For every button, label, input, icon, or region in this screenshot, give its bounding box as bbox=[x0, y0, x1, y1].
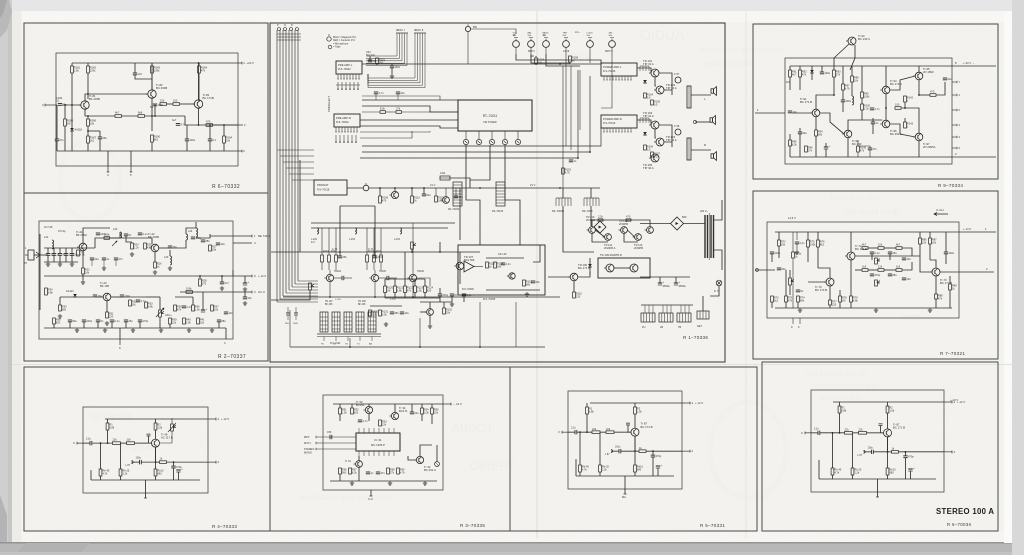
wire bbox=[905, 458, 907, 479]
transistor TR 111 bbox=[603, 234, 612, 241]
svg-text:MA: MA bbox=[622, 495, 626, 499]
svg-text:PU: PU bbox=[321, 344, 324, 346]
fuse F1 bbox=[440, 172, 450, 180]
svg-text:6,8k: 6,8k bbox=[397, 288, 403, 292]
svg-text:R 9–70016: R 9–70016 bbox=[603, 70, 616, 73]
potentiometer LOUD bbox=[587, 32, 594, 54]
svg-text:27k: 27k bbox=[836, 72, 841, 76]
svg-text:120: 120 bbox=[530, 55, 535, 58]
svg-text:50u: 50u bbox=[536, 280, 541, 284]
resistor R31 bbox=[106, 312, 115, 319]
transistor Tr-73 bbox=[930, 268, 952, 285]
svg-text:4u7: 4u7 bbox=[172, 118, 177, 122]
wire bbox=[789, 77, 791, 90]
svg-text:R 6–70332: R 6–70332 bbox=[212, 184, 240, 190]
wire bbox=[71, 248, 73, 254]
svg-text:4,7k: 4,7k bbox=[565, 170, 571, 174]
wire bbox=[818, 268, 830, 278]
pin 5 (P2 +12V) bbox=[233, 275, 252, 277]
wire bbox=[119, 328, 121, 339]
svg-text:UF LW: UF LW bbox=[498, 252, 507, 256]
resistor R4 (R4-70333) bbox=[127, 438, 135, 445]
svg-text:R4–70030: R4–70030 bbox=[448, 208, 460, 211]
wire bbox=[103, 260, 105, 266]
svg-text:47n: 47n bbox=[119, 257, 124, 261]
wire bbox=[47, 256, 49, 263]
wire bbox=[339, 404, 341, 408]
capacitor C62 bbox=[114, 257, 124, 261]
wire bbox=[198, 108, 200, 125]
svg-text:+ 12 V: + 12 V bbox=[957, 400, 965, 404]
wire bbox=[420, 301, 452, 303]
ground P2 gnd c34 bbox=[243, 287, 247, 291]
resistor R110 bbox=[411, 196, 421, 203]
block PRONAT bbox=[314, 180, 347, 195]
transistor Tr-22 bbox=[148, 232, 159, 252]
wire bbox=[599, 432, 601, 465]
svg-text:PRONAT: PRONAT bbox=[317, 183, 329, 187]
panel R6-70036 border bbox=[762, 362, 998, 531]
svg-text:470: 470 bbox=[382, 198, 387, 202]
wire bbox=[91, 260, 93, 266]
wire bbox=[834, 44, 849, 66]
svg-text:2,2n: 2,2n bbox=[187, 305, 193, 309]
rectifier bridge B1 bbox=[671, 216, 688, 230]
capacitor C78 bbox=[902, 257, 912, 261]
ground P8 gnd c bbox=[423, 481, 427, 485]
wire bbox=[347, 187, 363, 189]
capacitor C79 bbox=[902, 277, 912, 281]
svg-text:100u: 100u bbox=[868, 446, 874, 449]
wire bbox=[887, 402, 889, 406]
resistor R4 (R5-70331) bbox=[606, 427, 614, 434]
potentiometer BAL bbox=[528, 31, 535, 54]
capacitor C1 (R4-70333) bbox=[90, 441, 92, 445]
wire bbox=[295, 315, 297, 320]
svg-text:4,7k: 4,7k bbox=[834, 470, 840, 474]
wire bbox=[918, 80, 920, 95]
capacitor C122 bbox=[569, 159, 577, 163]
transistor TR 204 bbox=[324, 274, 333, 281]
svg-text:15k: 15k bbox=[214, 307, 219, 311]
resistor R143 bbox=[904, 122, 914, 129]
svg-text:47k: 47k bbox=[177, 307, 182, 311]
wire bbox=[369, 187, 600, 189]
wire bbox=[142, 447, 156, 462]
wire bbox=[888, 451, 892, 453]
capacitor C24 bbox=[64, 252, 74, 256]
svg-text:6,8k: 6,8k bbox=[841, 408, 847, 412]
wire bbox=[311, 227, 448, 229]
wire bbox=[329, 270, 331, 274]
resistor R108 bbox=[569, 56, 579, 63]
wire bbox=[853, 432, 859, 434]
test point circle bbox=[363, 185, 369, 191]
lamp stereo indicator bbox=[435, 462, 440, 467]
resistor R106 bbox=[644, 145, 654, 152]
resistor R105 bbox=[651, 100, 661, 107]
svg-text:68n: 68n bbox=[206, 239, 211, 243]
capacitor C112 bbox=[462, 293, 472, 297]
wire bbox=[368, 404, 370, 406]
wire bbox=[218, 322, 220, 328]
capacitor C75 bbox=[888, 251, 898, 255]
svg-text:BF 245: BF 245 bbox=[325, 304, 333, 306]
svg-text:2,2k: 2,2k bbox=[598, 215, 604, 219]
fold crease horizontal bbox=[12, 364, 1013, 366]
capacitor C48 bbox=[224, 311, 234, 315]
svg-text:12k: 12k bbox=[172, 320, 177, 324]
resistor R77 bbox=[829, 300, 838, 307]
svg-text:22u: 22u bbox=[401, 91, 406, 95]
wire bbox=[351, 404, 353, 408]
wire bbox=[855, 255, 920, 257]
transistor TR 114 bbox=[507, 273, 515, 279]
pin 2 (P1 gnd right) bbox=[238, 149, 245, 153]
capacitor C121 bbox=[396, 91, 406, 95]
potentiometer VR21 bbox=[159, 310, 164, 317]
resistor R5 (R4-70333) bbox=[160, 457, 167, 464]
wire bbox=[884, 247, 896, 249]
ground P2 gnd r31 bbox=[105, 321, 109, 325]
left cable bundle continues bbox=[276, 112, 278, 302]
capacitor C1 (R5-70331) bbox=[575, 430, 577, 434]
wire bbox=[842, 90, 844, 100]
wire bbox=[287, 307, 289, 313]
svg-text:3,3k: 3,3k bbox=[382, 312, 388, 316]
svg-text:Ω: Ω bbox=[543, 33, 545, 37]
svg-text:470: 470 bbox=[930, 90, 935, 94]
capacitor C72 bbox=[770, 251, 781, 255]
wire bbox=[95, 296, 103, 298]
wire bbox=[789, 66, 791, 70]
ground P2 gnd r24 bbox=[130, 252, 134, 256]
wire bbox=[655, 129, 656, 138]
panel R6-70332 border bbox=[24, 23, 268, 193]
wire bbox=[151, 63, 153, 66]
legend text block bbox=[327, 34, 357, 49]
wire bbox=[362, 106, 458, 112]
arrow V-CH bbox=[934, 213, 948, 216]
pin 2 (output R6-70036) bbox=[944, 451, 952, 453]
base capacitor (Tr 87) bbox=[879, 423, 883, 425]
pin 2 (output R4-70333) bbox=[208, 461, 216, 463]
capacitor C97 bbox=[943, 77, 953, 81]
svg-text:10u: 10u bbox=[907, 257, 912, 261]
wire bbox=[360, 126, 458, 128]
resistor R22 bbox=[82, 268, 91, 275]
resistor Rb-25 (R5-70331) bbox=[599, 465, 610, 472]
resistor R188 bbox=[115, 111, 122, 118]
resistor R76 bbox=[817, 240, 826, 247]
svg-text:820: 820 bbox=[354, 410, 359, 414]
capacitor C53 bbox=[330, 435, 332, 439]
resistor R53 bbox=[379, 420, 388, 427]
svg-text:B30: B30 bbox=[682, 216, 687, 219]
wire bbox=[621, 436, 635, 451]
resistor R25 bbox=[144, 243, 153, 250]
svg-text:L24: L24 bbox=[188, 229, 193, 233]
wire bbox=[139, 322, 141, 328]
wire bbox=[848, 120, 862, 130]
capacitor C123 bbox=[454, 195, 464, 199]
wire bbox=[155, 430, 157, 439]
wire bbox=[789, 146, 791, 157]
pin 6 (P4 right) bbox=[952, 109, 957, 111]
electrolytic capacitor C40 bbox=[201, 307, 208, 312]
wire bbox=[115, 260, 117, 266]
wire bbox=[929, 244, 931, 260]
wire bbox=[111, 322, 113, 328]
svg-text:L-204: L-204 bbox=[394, 239, 401, 241]
svg-text:22k: 22k bbox=[606, 427, 611, 431]
wire bbox=[105, 418, 208, 420]
wire bbox=[789, 285, 791, 295]
resistor R3 (R4-70333) bbox=[113, 438, 121, 445]
wire bbox=[474, 266, 483, 268]
capacitor C35 bbox=[243, 296, 253, 300]
svg-text:10u: 10u bbox=[229, 311, 234, 315]
wire bbox=[881, 426, 884, 433]
transistor Tr-82 bbox=[146, 83, 168, 98]
wire bbox=[443, 302, 445, 308]
svg-text:15k: 15k bbox=[434, 410, 439, 414]
svg-text:Tr 31: Tr 31 bbox=[345, 460, 351, 463]
resistor R85 bbox=[896, 265, 902, 272]
resistor R87 bbox=[929, 238, 938, 245]
capacitor C91 bbox=[820, 71, 831, 75]
svg-text:6,8k: 6,8k bbox=[148, 304, 154, 308]
wire bbox=[311, 222, 455, 224]
svg-text:4k7: 4k7 bbox=[862, 243, 867, 247]
wire bbox=[533, 245, 540, 262]
svg-text:R 6–7003ո: R 6–7003ո bbox=[947, 522, 972, 527]
ground PC gnd c102 bbox=[390, 74, 394, 78]
wire bbox=[178, 472, 180, 480]
svg-text:BF 195: BF 195 bbox=[100, 284, 109, 288]
svg-text:0,5: 0,5 bbox=[647, 147, 651, 151]
wire bbox=[600, 431, 606, 433]
svg-text:25u: 25u bbox=[129, 319, 134, 323]
svg-text:R 9–70334: R 9–70334 bbox=[938, 183, 963, 188]
wire bbox=[88, 130, 100, 132]
svg-text:1,5k: 1,5k bbox=[342, 410, 348, 414]
svg-text:15k: 15k bbox=[200, 320, 205, 324]
resistor R103 bbox=[535, 58, 545, 65]
wire bbox=[887, 475, 889, 479]
resistor R186 bbox=[87, 119, 97, 126]
wire bbox=[918, 66, 920, 72]
resistor R185 bbox=[64, 119, 74, 126]
wire bbox=[59, 297, 61, 305]
panel R5-70331 border bbox=[510, 367, 757, 531]
wire bbox=[862, 119, 882, 121]
wire bbox=[450, 178, 470, 188]
resistor R82 bbox=[896, 243, 902, 250]
wire bbox=[459, 188, 461, 240]
svg-text:100u: 100u bbox=[825, 71, 831, 75]
wire bbox=[799, 66, 801, 70]
svg-text:68n: 68n bbox=[395, 311, 400, 315]
svg-text:PRESELECT: PRESELECT bbox=[327, 96, 331, 112]
svg-text:2,2u: 2,2u bbox=[814, 427, 819, 430]
wire bbox=[807, 247, 809, 262]
wire bbox=[65, 248, 67, 254]
resistor R23 bbox=[104, 233, 110, 240]
capacitor C96 bbox=[870, 107, 880, 111]
svg-text:12k: 12k bbox=[878, 265, 883, 269]
svg-text:BC 130 C: BC 130 C bbox=[858, 37, 870, 41]
svg-text:L-202: L-202 bbox=[311, 239, 318, 241]
wire bbox=[71, 256, 73, 263]
transistor TR 109a bbox=[604, 264, 614, 272]
resistor R1 (R5-70331) bbox=[586, 407, 595, 414]
transistor Tr-32 bbox=[414, 456, 436, 472]
svg-text:NET: NET bbox=[697, 325, 702, 328]
svg-text:47k: 47k bbox=[938, 296, 943, 300]
wire bbox=[949, 276, 951, 284]
pin 3 (input R5-70331) bbox=[562, 431, 568, 433]
svg-text:1M: 1M bbox=[387, 288, 391, 292]
wire bbox=[135, 442, 149, 444]
wire bbox=[811, 73, 813, 80]
wire bbox=[829, 286, 831, 300]
wire bbox=[110, 237, 133, 239]
svg-text:10k: 10k bbox=[878, 243, 883, 247]
wire bbox=[389, 277, 397, 279]
wire bbox=[145, 480, 147, 498]
svg-text:POWER AMP-R: POWER AMP-R bbox=[603, 117, 622, 121]
wire bbox=[334, 277, 342, 279]
svg-text:2,2k: 2,2k bbox=[122, 471, 128, 475]
resistor R1 (R4-70333) bbox=[106, 423, 115, 430]
amplifier cluster B bbox=[366, 228, 383, 270]
connector block J1 bbox=[641, 313, 655, 322]
wire bbox=[675, 277, 677, 283]
wire bbox=[107, 419, 109, 423]
wires bundle to preamp bbox=[277, 149, 314, 151]
top-left corner shading bbox=[0, 0, 12, 38]
svg-text:BF 245B: BF 245B bbox=[148, 235, 159, 239]
wire bbox=[159, 297, 161, 310]
svg-text:R216: R216 bbox=[376, 251, 382, 253]
wire bbox=[817, 247, 819, 268]
wire bbox=[861, 98, 863, 104]
svg-text:2,2n: 2,2n bbox=[800, 241, 806, 245]
svg-text:R 8–70002: R 8–70002 bbox=[338, 67, 351, 71]
svg-text:1M: 1M bbox=[132, 302, 136, 306]
pin 3 (P1 input) bbox=[45, 104, 57, 106]
svg-text:27k: 27k bbox=[390, 470, 395, 474]
capacitor C2 (R4-70333) bbox=[140, 460, 142, 464]
wire bbox=[198, 63, 200, 66]
potentiometer TRE bbox=[563, 32, 570, 54]
svg-text:+ 12 V: + 12 V bbox=[221, 417, 229, 421]
wire bbox=[646, 450, 682, 452]
capacitor C1 (R6-70036) bbox=[818, 431, 820, 435]
svg-text:TIP 31 A: TIP 31 A bbox=[643, 62, 654, 66]
capacitor C22 bbox=[52, 252, 60, 256]
wire bbox=[155, 419, 157, 423]
wire bbox=[819, 478, 936, 480]
resistor R152 bbox=[562, 168, 572, 175]
svg-text:100k: 100k bbox=[186, 287, 192, 291]
svg-text:14,5 V: 14,5 V bbox=[788, 216, 796, 220]
wire bbox=[414, 293, 416, 299]
wire bbox=[839, 290, 841, 296]
resistor R182 bbox=[87, 66, 97, 73]
wire bbox=[169, 324, 171, 328]
wire bbox=[592, 233, 608, 242]
wire bbox=[146, 296, 160, 298]
svg-text:1,5k: 1,5k bbox=[74, 68, 80, 72]
potentiometer VR72 bbox=[875, 258, 880, 264]
svg-text:R3–70315: R3–70315 bbox=[492, 210, 504, 213]
wire bbox=[135, 75, 152, 79]
pin 2 (P4 gnd) bbox=[952, 156, 996, 158]
ground P5 gnd b bbox=[874, 308, 878, 312]
wire bbox=[225, 328, 227, 339]
wire bbox=[627, 230, 634, 237]
wire bbox=[339, 252, 341, 256]
svg-text:R214: R214 bbox=[368, 251, 374, 253]
wire bbox=[659, 125, 672, 142]
svg-text:BC 171B: BC 171B bbox=[203, 96, 214, 100]
capacitor C112 bbox=[338, 255, 348, 259]
wire bbox=[379, 188, 381, 196]
svg-text:2,2k: 2,2k bbox=[602, 467, 608, 471]
wire bbox=[431, 414, 433, 424]
wire bbox=[778, 232, 780, 240]
wire bbox=[899, 451, 945, 453]
wire bbox=[796, 232, 798, 240]
svg-text:ΦDO I: ΦDO I bbox=[396, 28, 405, 32]
wire bbox=[195, 222, 197, 228]
wire bbox=[816, 95, 834, 109]
transistor TR 113 bbox=[633, 234, 642, 241]
svg-text:10n: 10n bbox=[907, 277, 912, 281]
resistor R144 bbox=[930, 90, 936, 97]
svg-text:TR205: TR205 bbox=[379, 271, 387, 273]
wire bbox=[223, 143, 225, 151]
wire bbox=[586, 414, 588, 432]
svg-text:220 V~: 220 V~ bbox=[700, 210, 709, 213]
wire bbox=[548, 276, 570, 278]
wire bbox=[691, 149, 711, 151]
inductor L24 bbox=[186, 234, 188, 240]
inductor L91 bbox=[852, 96, 854, 105]
wire bbox=[601, 54, 612, 108]
block POWER AMP-L R9-70016 bbox=[601, 63, 637, 76]
connector block J3 bbox=[677, 313, 691, 322]
svg-text:50u: 50u bbox=[803, 131, 808, 135]
svg-text:BC 171 B: BC 171 B bbox=[578, 266, 590, 270]
potentiometer BASS bbox=[543, 31, 550, 54]
resistor R36 bbox=[192, 305, 201, 312]
resistor R5 (R5-70331) bbox=[639, 446, 646, 453]
wire bbox=[431, 404, 433, 408]
ground P5 gnd a bbox=[798, 308, 802, 312]
wire bbox=[785, 302, 787, 308]
resistor R51 bbox=[339, 408, 348, 415]
svg-text:AM: AM bbox=[369, 343, 372, 346]
svg-text:L23: L23 bbox=[164, 255, 169, 259]
wire bbox=[459, 270, 461, 284]
svg-text:0,1: 0,1 bbox=[56, 99, 60, 103]
wire bbox=[44, 327, 226, 329]
ground P2 gnd b133 bbox=[131, 328, 135, 332]
pin MPX (P8) bbox=[316, 436, 356, 438]
